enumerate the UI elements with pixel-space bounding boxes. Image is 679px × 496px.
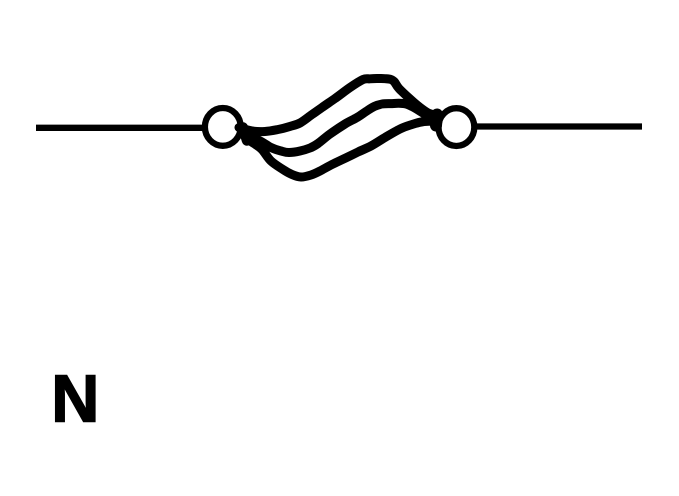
node (left terminal ring): [205, 108, 241, 146]
wire (right lead): [475, 123, 642, 129]
flexible link conductor (bottom strand): [246, 121, 433, 177]
junction wedge at left ring: [243, 128, 247, 141]
svg-text:N: N: [51, 362, 99, 436]
junction wedge at right ring: [436, 115, 437, 126]
flexible link conductor (top strand): [239, 79, 433, 132]
wire (left lead): [36, 125, 204, 131]
flexible link conductor (middle strand): [243, 103, 432, 152]
node (right terminal ring): [439, 108, 475, 146]
